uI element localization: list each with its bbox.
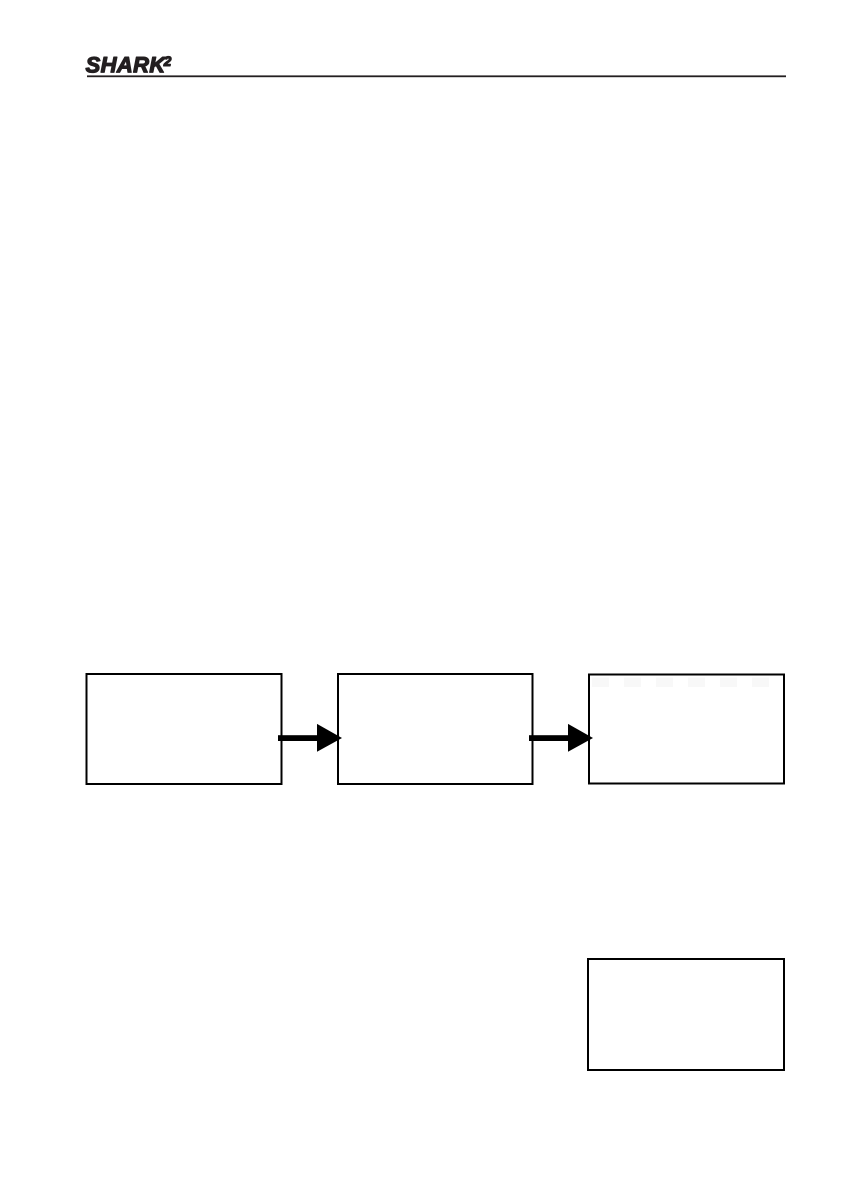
box 4 (bottom right)	[588, 959, 784, 1070]
header rule	[87, 75, 786, 77]
box 3	[589, 675, 784, 784]
faint artifact squares inside box 3	[592, 678, 769, 688]
arrow 2	[529, 724, 593, 752]
logo SHARK2	[0, 0, 841, 120]
box 2	[338, 674, 533, 784]
box 1	[87, 674, 282, 784]
arrow 1	[278, 724, 342, 752]
